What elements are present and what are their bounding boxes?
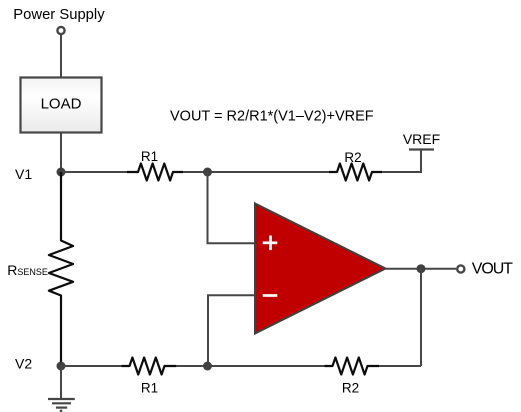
wire: op-amp output xyxy=(386,268,457,270)
node: bottom junction to inverting input xyxy=(203,362,212,371)
terminal bar VREF xyxy=(409,148,434,150)
wire: V1 to R1 xyxy=(61,171,128,173)
wire: V2 to ground xyxy=(60,366,62,399)
svg-text:LOAD: LOAD xyxy=(41,96,82,113)
resistor R2 (top) xyxy=(329,164,382,181)
load box xyxy=(21,78,102,133)
wire: R1 bottom to R2 bottom (through - node) xyxy=(176,365,325,367)
wire: - input to bottom junction xyxy=(208,295,255,366)
svg-text:R2: R2 xyxy=(344,150,361,165)
wire: supply to load xyxy=(60,35,62,77)
resistor RSENSE (vertical) xyxy=(49,172,73,366)
op-amp - input marker xyxy=(263,294,278,297)
svg-text:VOUT = R2/R1*(V1–V2)+VREF: VOUT = R2/R1*(V1–V2)+VREF xyxy=(170,109,374,125)
wire: load to V1 xyxy=(60,133,62,172)
wire: R2 to VREF corner xyxy=(382,150,421,172)
resistor R1 (bottom) xyxy=(122,358,177,375)
svg-text:R1: R1 xyxy=(141,381,158,396)
svg-text:V1: V1 xyxy=(15,166,32,182)
wire: V2 to R1 bottom xyxy=(61,365,122,367)
wire: junction down to + input xyxy=(208,172,256,243)
svg-text:R2: R2 xyxy=(342,381,359,396)
svg-text:RSENSE: RSENSE xyxy=(7,262,48,278)
resistor R2 (bottom) xyxy=(325,358,380,375)
node V1 xyxy=(57,168,66,177)
svg-text:VOUT: VOUT xyxy=(472,261,513,278)
wire: feedback vertical xyxy=(420,269,422,366)
svg-text:VREF: VREF xyxy=(403,131,440,147)
terminal VOUT xyxy=(457,265,464,272)
ground xyxy=(48,399,75,411)
op-amp + input marker xyxy=(263,241,278,244)
terminal: power supply xyxy=(57,27,64,34)
op-amp U1 xyxy=(255,204,386,334)
svg-text:V2: V2 xyxy=(15,356,32,372)
resistor R1 (top) xyxy=(127,164,183,181)
wire: R2 bottom to feedback corner xyxy=(379,365,421,367)
svg-text:R1: R1 xyxy=(141,149,158,164)
wire: R1 to R2 (through + node) xyxy=(183,171,330,173)
node: top junction to noninverting input xyxy=(203,168,212,177)
node: output feedback junction xyxy=(417,264,426,273)
svg-text:Power Supply: Power Supply xyxy=(13,7,105,23)
node V2 xyxy=(57,362,66,371)
